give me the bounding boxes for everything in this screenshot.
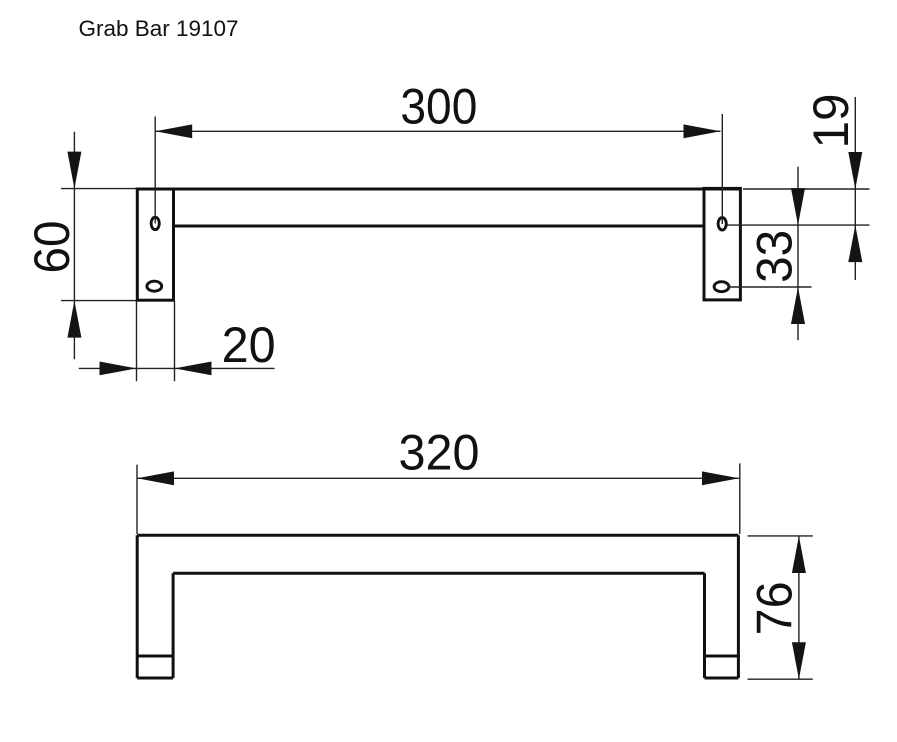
svg-text:60: 60 xyxy=(23,221,80,274)
svg-text:320: 320 xyxy=(399,424,480,481)
svg-text:19: 19 xyxy=(802,94,859,149)
svg-text:33: 33 xyxy=(746,230,803,283)
svg-text:Grab Bar 19107: Grab Bar 19107 xyxy=(79,16,239,41)
svg-text:20: 20 xyxy=(222,316,276,373)
svg-text:76: 76 xyxy=(746,581,803,635)
svg-text:300: 300 xyxy=(400,77,477,134)
